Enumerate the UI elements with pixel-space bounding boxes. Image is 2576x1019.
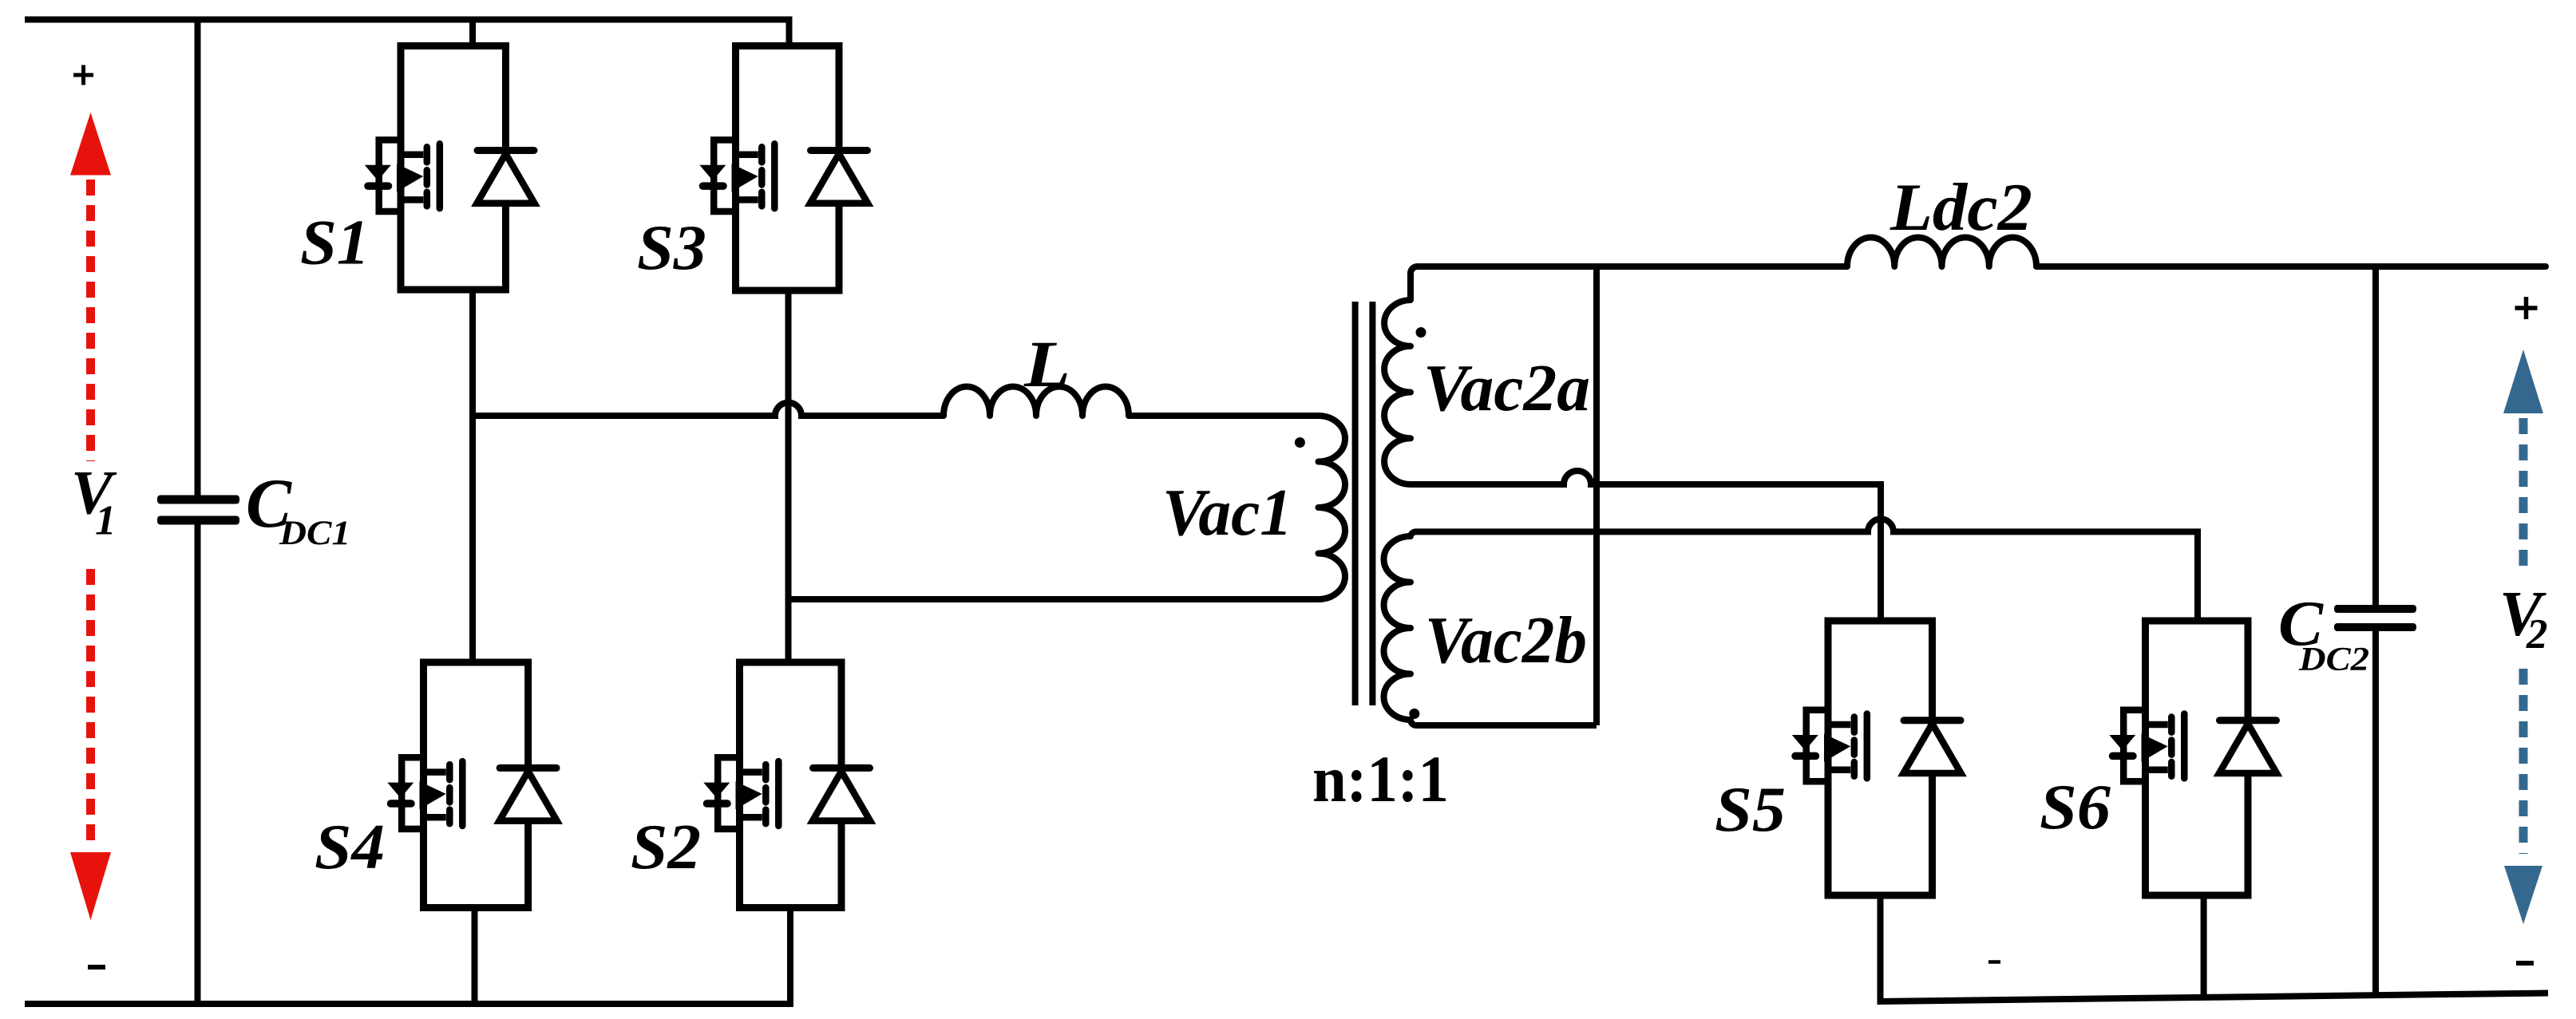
transistor S4 (MOSFET with antiparallel diode) [387, 662, 556, 908]
transistor S5 (MOSFET with antiparallel diode) [1792, 621, 1961, 895]
wire: Vac2a bottom to S5 (hops left of junction vertical) [1411, 471, 1881, 621]
transistor S6 (MOSFET with antiparallel diode) [2109, 621, 2277, 895]
svg-text:S1: S1 [300, 208, 370, 278]
svg-text:Vac2b: Vac2b [1425, 603, 1587, 677]
svg-text:S4: S4 [315, 812, 385, 883]
transformer secondary winding Vac2a [1384, 267, 1417, 484]
node: Vac2b polarity dot [1409, 709, 1419, 719]
wire: top DC+ rail (V1 bridge top) [25, 20, 789, 46]
wire: CDC2 rail lower [2372, 631, 2379, 996]
V2 plus sign [2515, 297, 2538, 319]
wire: bottom output rail (V2-) [1878, 993, 2549, 1002]
wire: S5 bottom stub [1878, 895, 1884, 1001]
svg-text:n:1:1: n:1:1 [1312, 742, 1449, 816]
node: Vac2a polarity dot [1416, 327, 1426, 338]
wire: S2 bottom stub [787, 908, 793, 1005]
V1 voltage arrow (red, dashed, double-headed) [70, 113, 111, 920]
svg-text:2: 2 [2526, 611, 2548, 658]
stray mark (small dash artifact near bottom rail) [1988, 960, 2000, 964]
node: primary polarity dot [1295, 437, 1305, 448]
wire: Vac2b top to S6 (hops over S5 stub) [1416, 519, 2198, 621]
wire: S1 to S4 leg (bridge midpoint A) [469, 290, 476, 662]
transformer secondary winding Vac2b [1384, 531, 1422, 725]
svg-text:DC1: DC1 [279, 515, 350, 552]
wire: left input rail upper (to CDC1) [195, 17, 201, 496]
transformer core line 1 [1352, 302, 1359, 705]
transistor S1 (MOSFET with antiparallel diode) [365, 46, 535, 290]
capacitor CDC2 [2334, 605, 2416, 631]
wire: left input rail lower (CDC1 to bottom) [195, 525, 201, 1005]
svg-text:S6: S6 [2040, 772, 2111, 843]
wire: S3 to S2 leg (bridge midpoint B) [785, 290, 792, 662]
wire: S6 bottom stub [2201, 895, 2207, 998]
svg-text:1: 1 [95, 498, 117, 544]
wire: Vac2b bottom to junction vertical [1419, 722, 1597, 729]
wire: bottom DC- rail (V1 bridge bottom) [25, 1001, 793, 1007]
V1 plus sign [73, 65, 93, 85]
wire: S4 bottom stub [472, 908, 478, 1005]
svg-text:S2: S2 [631, 812, 701, 883]
inductor L and wire to transformer primary winding Vac1 [789, 387, 1346, 600]
wire: junction vertical (Vac2a top + Vac2b bottom to Ldc2 input) [1593, 267, 1600, 725]
svg-text:Ldc2: Ldc2 [1889, 170, 2032, 245]
svg-text:Vac2a: Vac2a [1423, 351, 1590, 425]
svg-text:S3: S3 [637, 213, 706, 283]
wire: CDC2 rail upper [2372, 267, 2379, 605]
wire: midpoint A to inductor L (hops over S3-S2 leg) [473, 403, 944, 417]
V2 minus sign [2516, 961, 2534, 966]
transistor S2 (MOSFET with antiparallel diode) [703, 662, 870, 908]
svg-text:DC2: DC2 [2298, 642, 2369, 678]
transformer core line 2 [1369, 302, 1375, 705]
V2 voltage arrow (blue, dashed, double-headed) [2503, 350, 2543, 924]
svg-text:S5: S5 [1715, 775, 1786, 845]
V1 minus sign [88, 965, 105, 970]
transistor S3 (MOSFET with antiparallel diode) [699, 46, 868, 291]
svg-text:Vac1: Vac1 [1162, 476, 1292, 550]
wire: Vac2a top / top output rail with inductor Ldc2 [1418, 237, 2546, 267]
wire: S1 top stub [469, 20, 476, 46]
capacitor CDC1 [157, 496, 239, 525]
svg-text:L: L [1023, 327, 1070, 401]
